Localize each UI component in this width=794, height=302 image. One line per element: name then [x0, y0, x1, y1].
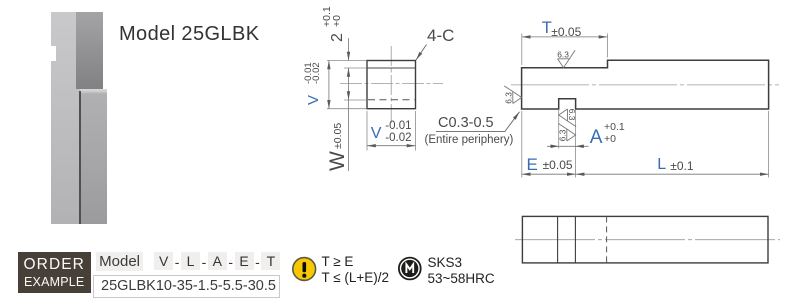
svg-text:6.3: 6.3	[557, 49, 569, 59]
label V left (rotated, blue)	[306, 95, 321, 105]
photo lower block face	[80, 89, 107, 225]
dimension E: dimension line with arrows	[522, 173, 576, 175]
bottom view notch edge line 2	[574, 216, 576, 263]
dimension T: right extension line	[607, 34, 609, 58]
dimension V bottom: left extension line	[366, 111, 368, 151]
front view horizontal centerline	[340, 83, 443, 85]
label W (rotated)	[327, 151, 348, 171]
note SKS3	[428, 255, 463, 270]
dimension V left: bottom extension line	[327, 108, 366, 110]
dimension V left: dimension line with arrows	[328, 61, 330, 109]
note (Entire periphery)	[425, 134, 514, 146]
tolerance -0.01/-0.02 for left V (rotated)	[305, 62, 321, 84]
dimension W: lower extension line	[344, 99, 366, 101]
tolerance ±0.1 for L	[670, 160, 693, 172]
surface roughness symbol 6.3 on notch right face	[557, 123, 575, 141]
svg-text:6.3: 6.3	[557, 129, 567, 141]
photo edge shadow line	[79, 91, 81, 224]
tolerance ±0.05 for T	[551, 26, 581, 38]
front view chamfer strip line	[367, 67, 416, 69]
label 2 (rotated)	[330, 33, 346, 42]
ORDER EXAMPLE dark box	[18, 252, 91, 293]
bottom view outline	[522, 216, 768, 263]
label E (blue)	[527, 156, 538, 173]
side view centerline	[511, 84, 779, 86]
Model label box	[96, 252, 143, 271]
dimension 2: upper extension line	[344, 67, 366, 69]
code letter box E	[235, 252, 254, 270]
title Model 25GLBK	[119, 23, 259, 46]
separator dash 1	[172, 253, 182, 271]
label A (blue)	[590, 128, 603, 147]
label V bottom (blue)	[371, 126, 382, 142]
tolerance +0.1/+0 for 2 (rotated)	[322, 6, 343, 27]
surface roughness symbol 6.3 on notch left face	[559, 109, 577, 127]
svg-text:6.3: 6.3	[503, 92, 513, 104]
note T >= E	[322, 254, 354, 269]
code letter box T	[261, 252, 280, 270]
front view vertical centerline	[390, 46, 392, 123]
tolerance +0.1/+0 for A	[604, 121, 625, 145]
notch left extension line	[558, 110, 560, 149]
dimension V bottom: dimension line with arrows	[367, 145, 416, 147]
part photo (3D render of punch blank)	[51, 12, 107, 224]
front view hidden dashed line	[368, 99, 415, 101]
order number box	[93, 275, 280, 298]
dimension V left: top extension line	[327, 60, 366, 62]
front view square outline	[367, 61, 416, 109]
separator dash 4	[253, 253, 263, 271]
label 4-C	[427, 26, 454, 46]
surface roughness symbol 6.3 on top edge	[557, 49, 575, 67]
dimension V bottom: right extension line	[415, 111, 417, 151]
note C0.3-0.5	[438, 115, 494, 131]
label T (blue)	[542, 20, 552, 37]
photo upper dark face	[76, 12, 103, 89]
dimension A: left arrowhead	[551, 145, 559, 149]
dimension E/L: left extension line	[521, 111, 523, 178]
dimension 2: dimension line with arrow	[348, 38, 350, 61]
note 53~58HRC	[428, 271, 495, 286]
separator dash 2	[199, 253, 209, 271]
dimension L: dimension line with arrows	[576, 173, 769, 175]
svg-text:6.3: 6.3	[567, 109, 577, 121]
dimension A: dimension line	[547, 145, 589, 147]
label L (blue)	[657, 157, 666, 173]
dimension A: right arrowhead	[576, 145, 584, 149]
photo notch cutout	[50, 46, 56, 62]
separator dash 3	[226, 253, 236, 271]
leader line to 4-C chamfer	[416, 45, 427, 61]
bottom view notch edge line 1	[557, 216, 559, 263]
bottom view hidden step line (dashed)	[606, 216, 608, 263]
warning icon (yellow exclamation)	[291, 256, 318, 283]
dimension W: dimension line tail	[348, 100, 350, 171]
tolerance -0.01/-0.02 for bottom V	[385, 120, 411, 144]
side view outline with step and notch	[522, 60, 769, 109]
surface roughness symbol 6.3 on left end face	[503, 86, 521, 104]
tolerance ±0.05 for E	[543, 159, 573, 171]
photo left light face	[51, 12, 80, 224]
notch right extension line	[575, 110, 577, 178]
code letter box V	[154, 252, 173, 270]
dimension W: dimension line with arrows	[348, 68, 350, 100]
dimension T: dimension line with arrows	[522, 36, 608, 38]
leader line from C0.3-0.5 note to corner	[436, 112, 520, 132]
material icon M	[397, 256, 423, 282]
code letter box A	[208, 252, 227, 270]
code letter box L	[181, 252, 200, 270]
tolerance ±0.05 for W (rotated)	[333, 123, 344, 149]
dimension E/L: right extension line	[768, 111, 770, 178]
bottom view centerline	[515, 239, 780, 241]
note T <= (L+E)/2	[322, 270, 390, 285]
dimension T: left extension line	[521, 34, 523, 66]
